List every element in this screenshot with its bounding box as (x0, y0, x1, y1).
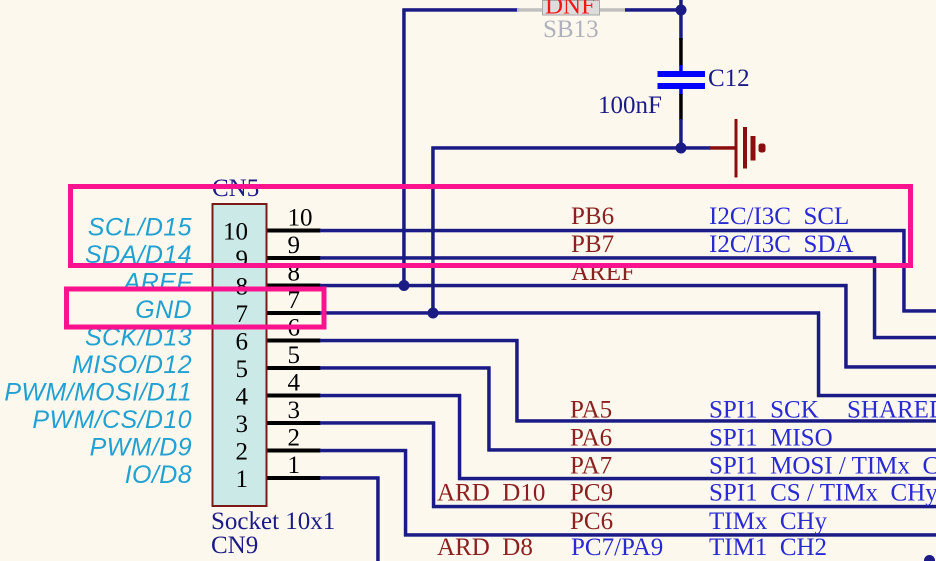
svg-text:SCL/D15: SCL/D15 (88, 214, 192, 242)
wire pin 5 exit horizontal (488, 448, 936, 452)
wire pin 3 exit horizontal (432, 505, 936, 509)
svg-text:C12: C12 (708, 65, 750, 92)
svg-text:ARD D8: ARD D8 (437, 534, 533, 561)
svg-text:TIM1 CH2: TIM1 CH2 (709, 534, 827, 561)
wire pin 10 exit horizontal (903, 309, 936, 313)
wire maroon to ground symbol (709, 146, 735, 150)
svg-text:SPI1 SCK: SPI1 SCK (709, 397, 819, 424)
wire pin 8 exit horizontal (845, 365, 936, 369)
svg-text:CN9: CN9 (211, 532, 258, 559)
connector CN5 pin 6 stub (268, 339, 321, 343)
connector CN5 pin 3 stub (268, 421, 321, 425)
ground symbol bar 4 (759, 144, 766, 153)
svg-text:AREF: AREF (122, 269, 194, 297)
wire top horizontal to SB13 (403, 8, 520, 12)
wire gnd node horizontal left (432, 146, 682, 150)
svg-text:PB6: PB6 (571, 203, 614, 230)
wire node up to edge and cap (679, 0, 683, 40)
svg-text:SHARED: SHARED (847, 397, 936, 424)
svg-text:SPI1 CS / TIMx CHy: SPI1 CS / TIMx CHy (709, 480, 936, 507)
svg-text:PWM/MOSI/D11: PWM/MOSI/D11 (4, 379, 192, 407)
highlight rectangle rows 9-10 (71, 187, 911, 266)
svg-text:PWM/D9: PWM/D9 (90, 434, 192, 462)
wire pin 9 vertical (873, 257, 877, 340)
capacitor C12 top pin (679, 38, 683, 66)
connector CN5 pin 9 stub (268, 256, 321, 260)
wire pin 6 exit horizontal (516, 419, 936, 423)
capacitor C12 top plate stub (679, 65, 683, 72)
solder bridge SB13 right lead (599, 8, 626, 12)
svg-text:2: 2 (236, 439, 249, 466)
highlight rectangle GND row (67, 289, 325, 327)
solder bridge SB13 body (543, 1, 600, 16)
svg-text:SB13: SB13 (543, 16, 599, 43)
connector CN5 pin 10 stub (268, 229, 321, 233)
svg-text:PC9: PC9 (570, 480, 613, 507)
wire pin 8 vertical (844, 284, 848, 369)
svg-text:4: 4 (236, 384, 249, 411)
wire pin 3 vertical (432, 422, 436, 509)
ground symbol bar 1 (735, 119, 738, 178)
wire SB13 to node (625, 8, 681, 12)
svg-text:PB7: PB7 (571, 231, 614, 258)
svg-text:2: 2 (288, 425, 301, 452)
connector CN5 pin 2 stub (268, 449, 321, 453)
wire pin 9 horizontal (320, 256, 876, 260)
wire pin 1 vertical (376, 477, 380, 561)
svg-text:I2C/I3C SCL: I2C/I3C SCL (709, 203, 849, 230)
ground symbol bar 2 (743, 127, 747, 169)
svg-text:MISO/D12: MISO/D12 (72, 351, 192, 379)
svg-text:ARD D10: ARD D10 (437, 480, 545, 507)
capacitor C12 top plate (658, 71, 706, 77)
svg-text:1: 1 (236, 466, 249, 493)
svg-text:SPI1 MOSI / TIMx CHy: SPI1 MOSI / TIMx CHy (709, 453, 936, 480)
wire pin 8 horizontal (320, 284, 848, 288)
connector CN5 body (213, 204, 267, 506)
capacitor C12 bottom plate (658, 83, 706, 89)
svg-text:6: 6 (236, 329, 249, 356)
wire pin 1 horizontal (320, 476, 380, 480)
svg-text:SPI1 MISO: SPI1 MISO (709, 425, 833, 452)
svg-text:PA7: PA7 (570, 453, 612, 480)
wire pin 2 horizontal (320, 449, 407, 453)
wire pin 10 vertical (902, 229, 906, 313)
svg-text:9: 9 (288, 232, 301, 259)
connector CN5 pin 7 stub (268, 311, 321, 315)
wire vertical left drop from top (402, 9, 406, 287)
junction GND on vertical (428, 308, 439, 319)
svg-text:5: 5 (288, 342, 301, 369)
svg-text:PC6: PC6 (570, 508, 613, 535)
svg-text:10: 10 (223, 219, 248, 246)
wire cap bottom to gnd node (679, 119, 683, 150)
wire pin 5 vertical (487, 367, 491, 452)
svg-text:Socket 10x1: Socket 10x1 (211, 508, 335, 535)
capacitor C12 bottom pin (679, 94, 683, 120)
svg-text:I2C/I3C SDA: I2C/I3C SDA (709, 231, 853, 258)
junction bottom right (924, 555, 935, 561)
wire pin 7 exit horizontal (817, 394, 936, 398)
svg-text:PA5: PA5 (570, 397, 612, 424)
wire pin 6 horizontal (320, 339, 519, 343)
connector CN5 pin 8 stub (268, 284, 321, 288)
node junction top (676, 5, 687, 16)
svg-text:7: 7 (236, 301, 249, 328)
svg-text:4: 4 (288, 370, 301, 397)
wire pin 7 horizontal (320, 311, 820, 315)
svg-text:9: 9 (236, 246, 249, 273)
wire pin 5 horizontal (320, 366, 491, 370)
wire pin 3 horizontal (320, 421, 435, 425)
svg-text:GND: GND (135, 296, 192, 324)
wire pin 7 vertical (817, 312, 821, 398)
svg-text:PWM/CS/D10: PWM/CS/D10 (32, 406, 192, 434)
svg-text:3: 3 (236, 411, 249, 438)
svg-text:PC7/PA9: PC7/PA9 (571, 534, 663, 561)
wire pin 10 horizontal (320, 229, 906, 233)
svg-text:1: 1 (288, 452, 301, 479)
connector CN5 pin 1 stub (268, 476, 321, 480)
wire pin 9 exit horizontal (873, 336, 936, 340)
svg-text:3: 3 (288, 397, 301, 424)
ground symbol bar 3 (751, 136, 756, 161)
solder bridge SB13 left lead (517, 8, 543, 12)
wire gnd node to ground symbol lead (681, 146, 711, 150)
node junction gnd net (676, 143, 687, 154)
svg-text:5: 5 (236, 356, 249, 383)
svg-text:IO/D8: IO/D8 (125, 461, 192, 489)
wire gnd vertical drop to pin7 (431, 147, 435, 315)
connector CN5 pin 4 stub (268, 394, 321, 398)
wire pin 6 vertical (515, 339, 519, 423)
wire pin 2 vertical (404, 449, 408, 537)
svg-text:TIMx CHy: TIMx CHy (709, 508, 828, 535)
wire pin 4 exit horizontal (458, 477, 936, 481)
wire pin 4 vertical (458, 394, 462, 480)
wire pin 4 horizontal (320, 394, 461, 398)
connector CN5 pin 5 stub (268, 366, 321, 370)
junction AREF on vertical (399, 280, 410, 291)
svg-text:PA6: PA6 (570, 425, 612, 452)
svg-text:10: 10 (288, 205, 313, 232)
svg-text:100nF: 100nF (598, 92, 662, 119)
capacitor C12 bottom plate stub (679, 89, 683, 96)
wire pin 2 exit horizontal (404, 533, 936, 537)
